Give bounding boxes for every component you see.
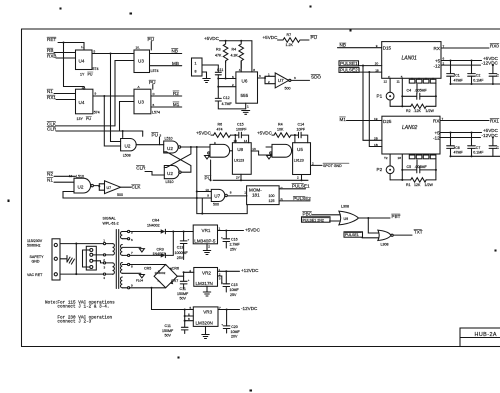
svg-text:R4: R4 xyxy=(232,48,237,52)
svg-text:CR4: CR4 xyxy=(152,218,159,222)
svg-text:500: 500 xyxy=(117,193,123,197)
svg-text:SAFETY: SAFETY xyxy=(30,255,45,259)
svg-text:50V: 50V xyxy=(180,296,187,300)
svg-text:1Y: 1Y xyxy=(80,73,85,77)
svg-text:.005MF: .005MF xyxy=(415,89,428,93)
svg-text:10MF: 10MF xyxy=(230,288,240,292)
svg-text:4.7MF: 4.7MF xyxy=(222,102,233,106)
svg-text:PU: PU xyxy=(88,73,93,77)
svg-text:C4: C4 xyxy=(407,89,412,93)
svg-text:D25: D25 xyxy=(383,119,392,124)
svg-text:C15: C15 xyxy=(231,283,238,287)
svg-text:RX1: RX1 xyxy=(490,118,499,123)
svg-text:C11: C11 xyxy=(180,287,186,291)
svg-text:10: 10 xyxy=(205,188,209,192)
svg-text:150MF: 150MF xyxy=(177,292,189,296)
svg-text:9: 9 xyxy=(131,284,133,288)
svg-text:11: 11 xyxy=(397,80,400,84)
svg-text:+5VDC: +5VDC xyxy=(196,131,212,136)
svg-text:L308: L308 xyxy=(381,243,389,247)
svg-text:+5VDC: +5VDC xyxy=(263,35,279,40)
svg-text:1.2K: 1.2K xyxy=(286,43,294,47)
svg-text:C: C xyxy=(281,186,284,190)
svg-text:L9123: L9123 xyxy=(234,159,244,163)
svg-text:C20: C20 xyxy=(231,325,238,329)
svg-text:10PF: 10PF xyxy=(297,127,306,131)
svg-text:PULSE2: PULSE2 xyxy=(340,68,358,73)
svg-text:U2: U2 xyxy=(167,171,173,176)
svg-text:NB: NB xyxy=(340,43,346,48)
svg-text:C14: C14 xyxy=(298,122,305,126)
svg-text:2: 2 xyxy=(312,161,314,165)
svg-text:TXT: TXT xyxy=(414,229,423,234)
svg-text:574: 574 xyxy=(93,67,99,71)
svg-text:19: 19 xyxy=(374,117,378,121)
svg-text:LAN01: LAN01 xyxy=(402,55,418,61)
svg-text:50/60Hz: 50/60Hz xyxy=(27,244,41,248)
svg-text:CR7: CR7 xyxy=(171,279,178,283)
svg-text:+12VDC: +12VDC xyxy=(241,268,259,273)
svg-text:+5VDC: +5VDC xyxy=(204,36,220,41)
svg-text:1N4002: 1N4002 xyxy=(147,223,160,227)
svg-text:8: 8 xyxy=(188,317,190,321)
svg-text:3: 3 xyxy=(294,76,296,80)
svg-text:7: 7 xyxy=(131,251,133,255)
svg-text:RX: RX xyxy=(433,119,439,124)
svg-text:LAN02: LAN02 xyxy=(402,125,418,131)
svg-text:PU: PU xyxy=(152,133,158,138)
svg-text:CLK: CLK xyxy=(47,121,57,126)
svg-text:1: 1 xyxy=(268,73,270,77)
svg-text:PU: PU xyxy=(149,80,155,85)
svg-text:125: 125 xyxy=(269,199,275,203)
svg-text:6: 6 xyxy=(131,238,133,242)
svg-text:CR5: CR5 xyxy=(144,267,151,271)
svg-text:-12: -12 xyxy=(433,136,440,141)
svg-text:25V: 25V xyxy=(230,248,237,252)
svg-text:U2: U2 xyxy=(167,146,173,151)
svg-text:SIGNAL: SIGNAL xyxy=(103,217,116,221)
svg-text:PULSE2: PULSE2 xyxy=(293,196,311,201)
svg-text:U4: U4 xyxy=(79,59,85,64)
svg-text:PULSE1: PULSE1 xyxy=(345,233,359,237)
svg-text:RX: RX xyxy=(434,46,440,51)
svg-text:3: 3 xyxy=(104,265,106,269)
svg-text:C11: C11 xyxy=(217,68,223,72)
svg-text:-12: -12 xyxy=(434,64,441,69)
svg-text:2: 2 xyxy=(103,258,105,262)
svg-text:6: 6 xyxy=(188,313,190,317)
svg-text:C13: C13 xyxy=(177,246,184,250)
svg-text:10MF: 10MF xyxy=(231,330,241,334)
svg-text:U8: U8 xyxy=(237,147,243,152)
svg-text:-12VDC: -12VDC xyxy=(241,306,258,311)
svg-text:100PF: 100PF xyxy=(236,127,247,131)
svg-text:8: 8 xyxy=(195,70,197,74)
svg-text:N2: N2 xyxy=(47,172,53,177)
svg-text:9: 9 xyxy=(214,141,216,145)
svg-text:47K: 47K xyxy=(215,53,222,57)
svg-text:12: 12 xyxy=(384,80,388,84)
svg-text:4: 4 xyxy=(189,269,191,273)
svg-text:1/2W: 1/2W xyxy=(425,183,434,187)
svg-text:PULSE1: PULSE1 xyxy=(340,61,358,66)
svg-text:SDO: SDO xyxy=(311,74,321,79)
svg-text:7: 7 xyxy=(443,44,445,48)
svg-text:1: 1 xyxy=(195,62,197,66)
svg-text:+: + xyxy=(188,237,190,241)
svg-text:U7: U7 xyxy=(107,186,112,190)
svg-text:U3: U3 xyxy=(138,100,144,105)
svg-text:L308: L308 xyxy=(341,204,349,208)
svg-text:25V: 25V xyxy=(230,293,237,297)
svg-text:C12: C12 xyxy=(223,96,230,100)
svg-text:8: 8 xyxy=(230,190,232,194)
svg-text:WPL-61-2: WPL-61-2 xyxy=(103,221,119,225)
svg-text:U9: U9 xyxy=(344,217,349,221)
svg-text:C: C xyxy=(497,146,500,150)
svg-text:7: 7 xyxy=(442,117,444,121)
svg-text:connect J 2-3: connect J 2-3 xyxy=(57,319,91,324)
svg-text:R1: R1 xyxy=(406,183,411,187)
svg-text:CLR: CLR xyxy=(136,165,146,170)
svg-text:M1: M1 xyxy=(340,117,347,122)
svg-text:U2: U2 xyxy=(78,185,84,190)
svg-text:18: 18 xyxy=(398,156,402,160)
svg-text:-12VDC: -12VDC xyxy=(482,133,499,138)
svg-text:U3: U3 xyxy=(138,59,144,64)
svg-text:Note:: Note: xyxy=(45,300,58,305)
svg-text:R6: R6 xyxy=(218,122,223,126)
svg-text:5: 5 xyxy=(190,306,192,310)
svg-text:115/230V: 115/230V xyxy=(27,239,43,243)
svg-text:0.1MF: 0.1MF xyxy=(473,151,484,155)
svg-text:connect J 1-2 & 3-4.: connect J 1-2 & 3-4. xyxy=(57,305,109,310)
svg-text:9: 9 xyxy=(207,194,209,198)
svg-text:2: 2 xyxy=(232,83,234,87)
svg-text:*C6: *C6 xyxy=(454,146,460,150)
svg-text:U6: U6 xyxy=(242,79,248,84)
svg-text:C: C xyxy=(153,92,156,96)
svg-text:C2: C2 xyxy=(476,74,481,78)
svg-text:4: 4 xyxy=(239,68,241,72)
svg-text:181: 181 xyxy=(252,193,260,198)
svg-text:C15: C15 xyxy=(237,122,244,126)
svg-text:4: 4 xyxy=(103,276,105,280)
svg-text:18: 18 xyxy=(375,68,379,72)
svg-text:20: 20 xyxy=(375,62,379,66)
svg-text:6: 6 xyxy=(153,103,155,107)
svg-text:2.7MF: 2.7MF xyxy=(230,243,241,247)
svg-text:VR3: VR3 xyxy=(203,309,212,314)
svg-text:CLK: CLK xyxy=(132,185,142,190)
svg-text:C16: C16 xyxy=(231,238,238,242)
svg-text:VR1: VR1 xyxy=(202,228,211,233)
svg-text:1: 1 xyxy=(219,227,221,231)
svg-text:MB: MB xyxy=(172,61,179,66)
svg-text:VAC RET: VAC RET xyxy=(27,273,43,277)
svg-text:PBC: PBC xyxy=(303,212,313,217)
svg-text:9: 9 xyxy=(95,92,97,96)
svg-text:PU: PU xyxy=(311,35,317,40)
svg-text:C11: C11 xyxy=(165,324,171,328)
svg-text:P2: P2 xyxy=(377,167,383,172)
svg-text:1B: 1B xyxy=(374,143,378,147)
svg-text:PULSE1 2N2: PULSE1 2N2 xyxy=(303,218,324,222)
svg-text:10K: 10K xyxy=(277,127,284,131)
svg-text:8: 8 xyxy=(131,265,133,269)
svg-text:1/2W: 1/2W xyxy=(426,109,435,113)
svg-text:R3: R3 xyxy=(216,48,221,52)
svg-text:R7: R7 xyxy=(287,33,292,37)
svg-text:12K: 12K xyxy=(414,183,421,187)
svg-text:2: 2 xyxy=(297,175,299,179)
svg-text:.12K: .12K xyxy=(414,109,422,113)
svg-text:RX1: RX1 xyxy=(47,95,56,100)
svg-text:3: 3 xyxy=(259,74,261,78)
svg-text:F104: F104 xyxy=(136,279,143,283)
svg-text:L508: L508 xyxy=(123,154,131,158)
svg-text:+5VDC: +5VDC xyxy=(245,227,261,232)
svg-text:C7: C7 xyxy=(476,146,481,150)
svg-text:C5: C5 xyxy=(407,165,412,169)
svg-text:L9123: L9123 xyxy=(294,159,304,163)
svg-text:1: 1 xyxy=(247,105,249,109)
svg-text:R2: R2 xyxy=(406,109,411,113)
svg-text:C: C xyxy=(497,74,500,78)
svg-text:SPOT GND: SPOT GND xyxy=(323,164,342,168)
svg-text:L510: L510 xyxy=(165,137,173,141)
svg-text:+5VDC: +5VDC xyxy=(257,131,273,136)
svg-text:U2: U2 xyxy=(125,144,131,149)
svg-text:D15: D15 xyxy=(383,46,392,51)
svg-text:+5: +5 xyxy=(435,58,441,63)
svg-text:500: 500 xyxy=(285,86,291,90)
svg-text:T2: T2 xyxy=(384,156,388,160)
svg-text:A: A xyxy=(138,85,141,89)
svg-text:500: 500 xyxy=(213,202,219,206)
svg-text:PU: PU xyxy=(205,175,211,180)
svg-text:0.1MF: 0.1MF xyxy=(473,79,484,83)
svg-text:RXB: RXB xyxy=(47,54,56,59)
svg-text:574: 574 xyxy=(94,111,100,115)
svg-text:1: 1 xyxy=(244,191,246,195)
svg-text:2: 2 xyxy=(208,245,210,249)
svg-text:100: 100 xyxy=(269,194,275,198)
svg-text:PULSE1: PULSE1 xyxy=(292,184,310,189)
svg-text:20V: 20V xyxy=(231,335,238,339)
svg-text:25V: 25V xyxy=(177,256,184,260)
svg-text:LM320N: LM320N xyxy=(196,320,213,325)
svg-text:R4: R4 xyxy=(278,122,283,126)
svg-text:2: 2 xyxy=(268,80,270,84)
svg-text:13: 13 xyxy=(252,147,256,151)
svg-text:U7: U7 xyxy=(278,78,284,83)
svg-text:P1: P1 xyxy=(377,94,383,99)
svg-text:6: 6 xyxy=(443,57,445,61)
svg-text:RET: RET xyxy=(47,37,56,42)
svg-text:N1: N1 xyxy=(47,177,53,182)
svg-text:LM340P-5: LM340P-5 xyxy=(194,238,216,243)
svg-text:LM317N: LM317N xyxy=(196,281,213,286)
svg-text:2Y: 2Y xyxy=(236,175,240,179)
svg-text:5: 5 xyxy=(94,49,96,53)
svg-text:50V: 50V xyxy=(165,334,172,338)
svg-text:M1: M1 xyxy=(173,102,180,107)
svg-text:L574: L574 xyxy=(152,110,160,114)
svg-text:12: 12 xyxy=(69,174,73,178)
svg-text:2: 2 xyxy=(443,62,445,66)
svg-text:1N4002: 1N4002 xyxy=(153,252,166,256)
svg-text:HUB-2A: HUB-2A xyxy=(475,332,497,338)
svg-text:-12VDC: -12VDC xyxy=(482,61,499,66)
svg-text:.005MF: .005MF xyxy=(415,165,428,169)
svg-text:13Y: 13Y xyxy=(77,117,84,121)
svg-text:NB: NB xyxy=(172,49,178,54)
svg-text:PU: PU xyxy=(148,37,154,42)
svg-text:PU: PU xyxy=(86,117,91,121)
svg-text:RB: RB xyxy=(47,48,53,53)
svg-text:150MF: 150MF xyxy=(162,329,174,333)
svg-text:L574: L574 xyxy=(151,69,159,73)
svg-text:474: 474 xyxy=(217,127,223,131)
svg-text:U5: U5 xyxy=(297,147,303,152)
svg-text:*C1: *C1 xyxy=(454,74,460,78)
svg-text:CLR: CLR xyxy=(47,127,57,132)
svg-text:6: 6 xyxy=(232,75,234,79)
svg-text:8: 8 xyxy=(253,68,255,72)
svg-text:1N4002: 1N4002 xyxy=(155,271,166,275)
svg-text:VR2: VR2 xyxy=(202,270,211,275)
svg-text:L510: L510 xyxy=(166,180,174,184)
svg-text:CR6: CR6 xyxy=(172,267,179,271)
svg-text:R2: R2 xyxy=(173,91,179,96)
svg-text:4.3K: 4.3K xyxy=(231,53,239,57)
svg-text:1.: 1. xyxy=(81,45,84,49)
svg-text:9: 9 xyxy=(376,44,378,48)
svg-text:+: + xyxy=(188,278,190,282)
svg-text:RX0: RX0 xyxy=(490,43,499,48)
svg-text:L510: L510 xyxy=(76,174,84,178)
svg-text:47MF: 47MF xyxy=(454,79,464,83)
svg-text:N1: N1 xyxy=(47,89,53,94)
svg-text:2B: 2B xyxy=(374,137,378,141)
svg-text:47MF: 47MF xyxy=(454,151,464,155)
svg-text:U7: U7 xyxy=(214,193,220,198)
svg-text:U4: U4 xyxy=(79,100,85,105)
svg-text:PBT: PBT xyxy=(392,214,401,219)
svg-text:555: 555 xyxy=(241,93,249,98)
svg-text:1: 1 xyxy=(103,239,105,243)
svg-text:10.: 10. xyxy=(136,46,140,50)
svg-text:GND: GND xyxy=(32,260,40,264)
svg-text:1000MF: 1000MF xyxy=(175,251,189,255)
